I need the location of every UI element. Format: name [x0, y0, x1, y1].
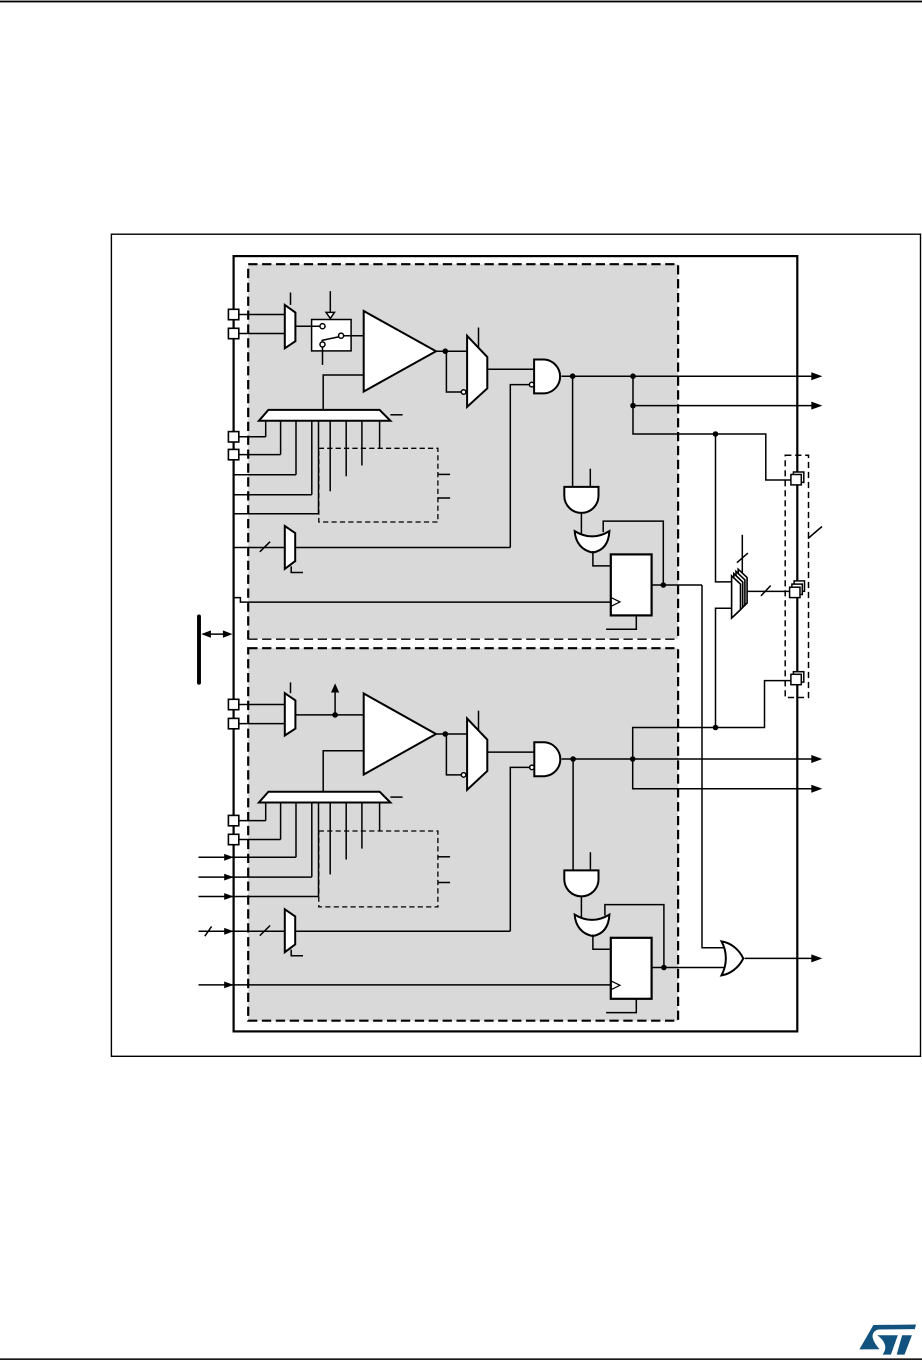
wire scaler tap 1 — [265, 803, 267, 821]
blanking mux MUX6 — [285, 909, 295, 952]
node COMP2 output junction — [443, 731, 449, 737]
arrowhead reference select 1 — [224, 854, 233, 861]
wire COMP2 INM input to mux — [234, 723, 285, 725]
wire COMP1 INM input to mux — [234, 333, 285, 335]
wire FF2 Q output to OR gate — [652, 967, 726, 969]
peripheral inner frame — [234, 256, 798, 1031]
I/O square COMP2 INM — [228, 718, 238, 728]
wire OR to flip-flop D input — [593, 935, 611, 950]
arrowhead bus left — [201, 630, 211, 637]
wire second output branch — [633, 376, 812, 405]
wire comparator inverting input from scaler bar — [323, 751, 364, 792]
bus slash on MUX7 control — [737, 553, 748, 563]
wire FF1 Q output — [652, 584, 702, 586]
switch SW1 throw contact — [339, 333, 344, 338]
wire lock gate second input stub — [589, 469, 591, 487]
wire MUX5 output to AND gate — [487, 751, 534, 753]
wire scaler tap 8 — [361, 421, 363, 466]
page header rule — [0, 1, 922, 3]
pad square mux out mid — [792, 584, 802, 594]
wire decoder stub 1 — [438, 473, 450, 475]
node window-mode tap — [713, 431, 719, 437]
wire decoder stub 2 — [438, 497, 450, 499]
clock pin symbol FF2 — [611, 981, 620, 990]
OR gate U6 (lock, pointing down) — [575, 915, 610, 937]
AND gate U1 (output gate) — [534, 360, 560, 394]
wire VREFINT pad 2 to tap — [239, 839, 281, 841]
wire reference select 2 from pad — [199, 876, 312, 878]
bus slash on blanking select — [260, 542, 270, 552]
output OR gate U7 — [722, 941, 744, 975]
polarity mux MUX5 — [467, 719, 487, 790]
figure outer frame — [111, 234, 920, 1056]
open arrowhead into SW1 — [326, 312, 334, 318]
wire SW1 bottom stub — [322, 348, 324, 365]
wire inverted branch — [446, 734, 461, 775]
wire FF2 clock line from pad — [199, 984, 611, 986]
wire SW1 control line — [329, 291, 331, 313]
OR gate U3 (lock, pointing down) — [575, 531, 610, 553]
output mux MUX7 front layer — [732, 576, 741, 618]
pad square COMP1 out back — [793, 472, 803, 482]
output mux MUX7 layer 4 — [738, 569, 747, 611]
arrowhead FF2 clock entering block — [224, 982, 233, 989]
AND gate U2 (lock, pointing down) — [564, 487, 598, 513]
comparator block COMP1 shaded region — [248, 264, 678, 639]
wire blanking source select — [234, 547, 285, 549]
I/O square VREFINT C — [228, 815, 238, 825]
wire scaler tap 1 — [265, 421, 267, 437]
inverter bubble on AND gate blanking input — [530, 765, 535, 770]
switch SW1 box — [312, 320, 352, 351]
wire VREFINT pad 2 to tap — [239, 454, 281, 456]
output mux MUX7 layer 2 — [734, 574, 743, 616]
AND gate U4 (output gate) — [534, 742, 560, 776]
wire blanking source select from pad — [199, 930, 285, 932]
ST logo — [859, 1325, 916, 1355]
bus slash on blanking select — [260, 926, 270, 936]
wire COMP2 output to polarity mux — [436, 733, 467, 735]
wire scaler right stub — [390, 414, 402, 416]
arrowhead second output — [811, 402, 822, 410]
dashed scaler decoder box — [319, 448, 438, 522]
wire MUX4 output to comparator — [295, 714, 363, 716]
arrowhead COMP1_OUT — [811, 372, 822, 380]
wire FF1 reset stub — [606, 615, 636, 629]
AND gate U5 (lock, pointing down) — [564, 870, 598, 896]
polarity mux MUX2 — [467, 336, 487, 407]
wire decoder stub 2 — [438, 882, 450, 884]
wire scaler tap 8 — [361, 803, 363, 849]
wire FF2 reset stub — [606, 999, 636, 1013]
wire to COMP1 output pad — [633, 406, 791, 480]
wire FF1 clock line — [234, 598, 611, 603]
wire MUX2 output to AND gate — [487, 368, 534, 370]
wire scaler tap 9 — [379, 421, 381, 448]
bus slash outside frame — [205, 926, 212, 936]
wire MUX2 select stub — [478, 328, 480, 349]
flip-flop FF2 — [611, 938, 652, 999]
wire OR to flip-flop D input — [593, 551, 611, 566]
inverter bubble on polarity mux input — [461, 773, 466, 778]
node Q junction — [661, 965, 667, 971]
bus terminal bar — [197, 616, 201, 682]
voltage scaler bar — [259, 410, 391, 421]
bus slash next to pad group — [808, 527, 822, 539]
wire COMP1 INP input to mux — [234, 314, 285, 316]
dashed GPIO pad group box — [785, 455, 808, 697]
wire VREFINT pad 1 to tap — [239, 820, 266, 822]
wire scaler tap 3 — [295, 803, 297, 858]
dashed scaler decoder box — [319, 831, 438, 907]
arrowhead COMP2_OUT — [811, 755, 822, 763]
wire scaler tap 6 — [329, 421, 331, 492]
wire MUX3 bottom stub — [291, 566, 303, 572]
wire lock AND to OR — [580, 513, 582, 534]
wire MUX6 output to AND bubble — [295, 930, 510, 932]
node output branch junction — [630, 373, 636, 379]
wire reference select 2 — [234, 494, 312, 496]
wire SW1 to comparator noninverting input — [343, 335, 363, 337]
blanking mux MUX3 — [285, 526, 295, 569]
ST logo S lower bowl — [877, 1335, 898, 1354]
wire MUX3 output to AND bubble — [295, 547, 510, 549]
comparator COMP2 — [364, 694, 436, 775]
flip-flop FF1 — [611, 554, 652, 615]
output mux MUX7 layer 3 — [736, 571, 745, 613]
pad square mux out back — [794, 581, 804, 591]
wire AND output down to lock gate — [572, 759, 574, 870]
node window-mode tap — [713, 725, 719, 731]
arrowhead bus right — [223, 630, 233, 637]
switch SW1 pole contact — [320, 324, 325, 329]
node AND output junction — [570, 756, 576, 762]
page footer rule — [0, 1358, 922, 1360]
wire MUX4 select stub — [290, 682, 292, 693]
wire MUX1 select stub — [290, 293, 292, 305]
wire scaler right stub — [390, 796, 402, 798]
wire MUX5 select stub — [478, 711, 480, 731]
node output branch junction — [630, 756, 636, 762]
wire inverted branch — [446, 351, 461, 392]
wire scaler tap 9 — [379, 803, 381, 832]
wire scaler tap 5 — [318, 421, 320, 514]
wire comparator inverting input from scaler bar — [323, 375, 364, 410]
wire lock feedback from Q — [605, 905, 664, 968]
I/O square COMP1 INP — [228, 309, 238, 319]
comparator COMP1 — [364, 311, 436, 392]
node MUX4 output junction — [332, 712, 338, 718]
bus slash on MUX7 output — [761, 586, 771, 596]
wire window-mode tap down to output mux — [716, 434, 732, 582]
arrowhead blanking select — [224, 928, 233, 935]
switch SW1 lower contact — [320, 342, 325, 347]
pad square COMP2 out front — [791, 674, 801, 684]
arrowhead OR output — [811, 954, 822, 962]
wire OR output to pad — [745, 957, 813, 959]
I/O square COMP1 INM — [228, 328, 238, 338]
wire MUX7 output to pad — [747, 590, 790, 592]
node Q junction — [661, 582, 667, 588]
wire scaler tap 7 — [345, 803, 347, 860]
wire lock feedback from Q — [603, 521, 663, 585]
wire scaler tap 3 — [295, 421, 297, 475]
wire Q down to output OR gate — [702, 585, 726, 948]
inverter bubble on AND gate blanking input — [529, 382, 534, 387]
wire COMP2 INP input to mux — [234, 704, 285, 706]
node second output junction — [630, 403, 636, 409]
ST logo S top bar and left limb — [859, 1325, 916, 1350]
wire MUX1 output to switch SW1 — [295, 325, 320, 327]
arrowhead window mode (up) — [331, 683, 339, 692]
wire COMP2_OUT line to pad — [562, 758, 813, 760]
wire blanking select to AND bubble — [510, 385, 529, 548]
wire lock AND to OR — [580, 896, 582, 917]
wire scaler tap 6 — [329, 803, 331, 875]
I/O square VREFINT A — [228, 432, 238, 442]
node COMP1 output junction — [443, 348, 449, 354]
wire blanking select to AND bubble — [510, 767, 529, 931]
pad square COMP2 out back — [793, 672, 803, 682]
switch SW1 lever — [321, 337, 338, 341]
wire scaler tap 2 — [280, 421, 282, 455]
wire decoder stub 1 — [438, 856, 450, 858]
input mux MUX4 (COMP2 input select) — [285, 693, 296, 735]
pad square mux out front — [790, 587, 800, 597]
wire bus double arrow shaft — [203, 633, 230, 635]
wire reference select 1 from pad — [199, 856, 297, 858]
wire scaler tap 4 — [311, 803, 313, 878]
wire COMP1 output to polarity mux — [436, 350, 467, 352]
wire second output branch — [633, 759, 813, 789]
wire MUX6 bottom stub — [291, 950, 303, 956]
inverter bubble on polarity mux input — [461, 390, 466, 395]
wire scaler tap 7 — [345, 421, 347, 477]
wire reference select 3 — [234, 513, 319, 515]
wire up to COMP2 output pad — [633, 681, 791, 759]
arrowhead second output — [811, 785, 822, 793]
input mux MUX1 (COMP1 input select) — [285, 305, 296, 348]
wire scaler tap 5 — [318, 803, 320, 897]
I/O square VREFINT B — [228, 449, 238, 459]
I/O square COMP2 INP — [228, 699, 238, 709]
node AND output junction — [570, 373, 576, 379]
wire VREFINT pad 1 to tap — [239, 436, 266, 438]
comparator block COMP2 shaded region — [248, 648, 678, 1021]
output mux MUX7 control stub — [741, 535, 743, 573]
wire AND output down to lock gate — [572, 376, 574, 487]
pad square COMP1 out front — [791, 475, 801, 485]
I/O square VREFINT D — [228, 834, 238, 844]
wire reference select 3 from pad — [199, 896, 319, 898]
voltage scaler bar — [259, 792, 391, 803]
wire window-mode tap up to output mux — [716, 608, 732, 727]
wire scaler tap 4 — [311, 421, 313, 495]
wire up to window mode arrow — [334, 692, 336, 715]
wire reference select 1 — [234, 474, 296, 476]
wire lock gate second input stub — [589, 852, 591, 870]
arrowhead reference select 3 — [224, 893, 233, 900]
arrowhead reference select 2 — [224, 874, 233, 881]
ST logo T stem — [897, 1335, 912, 1354]
clock pin symbol FF1 — [611, 597, 620, 606]
wire scaler tap 2 — [280, 803, 282, 840]
wire COMP1_OUT line to pad — [561, 375, 812, 377]
